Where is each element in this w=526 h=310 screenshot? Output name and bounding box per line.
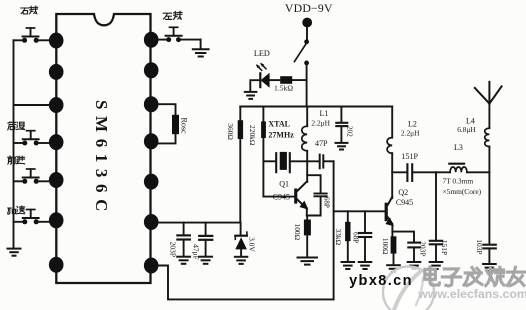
svg-text:202: 202 xyxy=(345,126,353,137)
label 151P shunt xyxy=(440,240,449,255)
svg-text:1.5kΩ: 1.5kΩ xyxy=(274,84,293,93)
svg-text:C945: C945 xyxy=(396,198,413,207)
capacitor C 103P xyxy=(483,245,495,264)
label 220kOhm xyxy=(248,125,257,146)
label L2 xyxy=(408,120,417,129)
label 360Ohm xyxy=(226,123,235,140)
IC pin 7 left xyxy=(49,257,64,273)
svg-text:33kΩ: 33kΩ xyxy=(334,229,343,246)
svg-text:103P: 103P xyxy=(475,239,484,254)
label backward xyxy=(8,122,25,130)
watermark ybx8.cn xyxy=(349,273,413,289)
svg-text:Q2: Q2 xyxy=(398,188,408,197)
wire main supply rail xyxy=(240,106,392,108)
IC U1 SM6136C body with notch xyxy=(56,14,150,283)
svg-text:220kΩ: 220kΩ xyxy=(248,125,257,146)
ground 203P filter xyxy=(177,257,190,264)
ground 33k xyxy=(342,262,355,269)
label 27MHz xyxy=(268,131,294,140)
inductor L4 6.8uH xyxy=(485,128,490,243)
inductor L1 2.2uH xyxy=(302,107,307,162)
label Q1 xyxy=(279,180,289,189)
label L3 xyxy=(454,143,463,152)
IC pin 4 left xyxy=(49,134,64,150)
capacitor C 203P filter xyxy=(177,223,190,257)
svg-text:100Ω: 100Ω xyxy=(293,224,302,241)
label 103P xyxy=(475,239,484,254)
watermark elecfans characters xyxy=(425,267,525,286)
label VDD-9V xyxy=(285,1,333,15)
label Rosc xyxy=(179,118,188,134)
resistor Rosc xyxy=(158,104,179,143)
LED D2 xyxy=(250,63,269,92)
switch S1 right-turn xyxy=(14,28,49,43)
label 68P Q2 xyxy=(352,232,360,243)
label left-turn xyxy=(163,11,182,19)
wire keying riser xyxy=(333,161,335,299)
wire 3V rail from pin 13 xyxy=(158,222,240,224)
capacitor C 151P coupling xyxy=(392,164,436,181)
resistor R 220k xyxy=(261,107,294,197)
svg-text:47P: 47P xyxy=(315,139,328,148)
capacitor C 68P feedback Q1 xyxy=(307,175,327,215)
IC pin 3 left xyxy=(49,97,64,113)
svg-text:151P: 151P xyxy=(401,152,418,161)
IC pin 1 left xyxy=(49,33,64,49)
label 68P Q1 xyxy=(323,197,331,208)
inductor L2 2.2uH xyxy=(387,107,392,199)
switch S2 backward xyxy=(14,131,49,146)
label XTAL xyxy=(268,120,290,129)
zener diode D1 3.0V xyxy=(235,223,247,257)
label LED xyxy=(254,49,270,58)
label L3 core xyxy=(442,187,481,196)
svg-text:L3: L3 xyxy=(454,143,463,152)
label 33kOhm xyxy=(334,229,343,246)
label 47uF xyxy=(192,244,201,260)
ground left bus xyxy=(8,249,21,256)
ground LED xyxy=(245,92,257,99)
switch S3 forward xyxy=(14,169,49,184)
capacitor C 47uF xyxy=(199,223,212,257)
transistor Q1 C945 xyxy=(294,161,308,215)
IC pin 6 left xyxy=(49,212,64,228)
IC pin 9 right xyxy=(144,62,159,78)
svg-text:100Ω: 100Ω xyxy=(381,238,390,255)
IC pin 12 right xyxy=(144,174,159,190)
capacitor C 47P xyxy=(320,155,334,169)
svg-text:L2: L2 xyxy=(408,120,417,129)
svg-text:203P: 203P xyxy=(419,241,428,256)
label Q2 C945 xyxy=(396,198,413,207)
switch S5 left-turn xyxy=(158,27,200,49)
label Q1 C945 xyxy=(273,193,290,202)
watermark elecfans url xyxy=(417,287,526,301)
svg-text:2.2μH: 2.2μH xyxy=(401,129,420,138)
IC pin 13 right xyxy=(144,214,159,230)
svg-text:68P: 68P xyxy=(323,197,331,208)
resistor R 100 Q2 emitter xyxy=(391,236,397,264)
label 47P xyxy=(315,139,328,148)
svg-text:360Ω: 360Ω xyxy=(226,123,235,140)
svg-text:6.8μH: 6.8μH xyxy=(457,125,476,134)
svg-text:3.0V: 3.0V xyxy=(247,237,256,252)
label L4 xyxy=(466,116,475,125)
capacitor C 68P Q2 base xyxy=(359,211,371,261)
wire left bus vertical xyxy=(13,40,15,248)
ground 151P shunt xyxy=(430,262,443,269)
IC pin 2 left xyxy=(49,64,64,80)
wire bus to pin 3 xyxy=(14,104,49,106)
wire VDD to switch xyxy=(306,27,308,39)
ground Q1 emitter xyxy=(298,258,318,265)
wire Q2 base line xyxy=(334,210,385,212)
IC label SM6136C xyxy=(92,100,111,218)
ground 202 xyxy=(336,143,348,150)
svg-text:LED: LED xyxy=(254,49,270,58)
svg-text:7T 0.3mm: 7T 0.3mm xyxy=(442,176,473,185)
resistor R 33k xyxy=(345,211,350,261)
ground 47uF xyxy=(199,257,212,264)
resistor R 360 xyxy=(238,107,243,223)
svg-text:27MHz: 27MHz xyxy=(268,131,294,140)
label L1 xyxy=(320,109,329,118)
IC pin 14 right xyxy=(144,258,159,274)
svg-text:Q1: Q1 xyxy=(279,180,289,189)
ground zener xyxy=(235,257,247,264)
svg-text:×5mm(Core): ×5mm(Core) xyxy=(442,187,481,196)
svg-text:www.elecfans.com: www.elecfans.com xyxy=(417,287,526,301)
ground 103P xyxy=(483,264,496,271)
capacitor C 203P Q2 xyxy=(392,232,419,262)
svg-text:C945: C945 xyxy=(273,193,290,202)
svg-text:47μF: 47μF xyxy=(192,244,201,260)
power terminal VDD 9V xyxy=(302,18,312,28)
svg-text:L1: L1 xyxy=(320,109,329,118)
svg-text:68P: 68P xyxy=(352,232,360,243)
resistor R 1.5k xyxy=(270,76,307,84)
switch S6 power xyxy=(294,39,309,65)
IC pin 8 right xyxy=(144,32,159,48)
label accelerate xyxy=(8,206,25,214)
label 203P filter xyxy=(169,242,178,257)
label L3 turns xyxy=(442,176,473,185)
ground left-turn switch xyxy=(193,49,209,56)
label 151P coupling xyxy=(401,152,418,161)
antenna xyxy=(475,82,502,128)
ground 68P Q2 xyxy=(359,262,372,269)
wire pin 14 keying line to bottom xyxy=(158,266,333,300)
inductor L3 with core xyxy=(436,164,489,173)
svg-text:ybx8.cn: ybx8.cn xyxy=(349,273,413,289)
label 3.0V xyxy=(247,237,256,252)
IC pin 11 right xyxy=(144,133,159,149)
label 100Ohm Q1 xyxy=(293,224,302,241)
label 202 xyxy=(345,126,353,137)
svg-text:XTAL: XTAL xyxy=(268,120,290,129)
svg-text:VDD−9V: VDD−9V xyxy=(285,1,333,15)
switch S4 accelerate xyxy=(14,210,49,225)
label 1.5kOhm xyxy=(274,84,293,93)
wire switch to rail xyxy=(306,65,308,106)
label forward xyxy=(8,156,25,164)
label 100Ohm Q2 xyxy=(381,238,390,255)
IC pin 5 left xyxy=(49,172,64,188)
label 203P Q2 xyxy=(419,241,428,256)
label L1 value xyxy=(311,119,330,128)
capacitor C 202 xyxy=(336,107,347,143)
transistor Q2 C945 xyxy=(385,197,394,237)
IC pin 10 right xyxy=(144,96,159,112)
label L2 value xyxy=(401,129,420,138)
watermark circle logo xyxy=(383,267,434,310)
svg-text:SM6136C: SM6136C xyxy=(92,100,111,218)
svg-text:2.2μH: 2.2μH xyxy=(311,119,330,128)
ground 203P Q2 xyxy=(408,262,421,269)
capacitor C 151P shunt xyxy=(430,172,442,261)
label Q2 xyxy=(398,188,408,197)
label right-turn xyxy=(21,6,38,14)
resistor R 100 Q1 emitter xyxy=(304,216,311,258)
svg-text:203P: 203P xyxy=(169,242,178,257)
svg-text:Rosc: Rosc xyxy=(179,118,188,134)
ground Q2 emitter xyxy=(387,265,400,272)
svg-text:151P: 151P xyxy=(440,240,449,255)
label L4 value xyxy=(457,125,476,134)
crystal XTAL 27MHz xyxy=(263,152,318,172)
